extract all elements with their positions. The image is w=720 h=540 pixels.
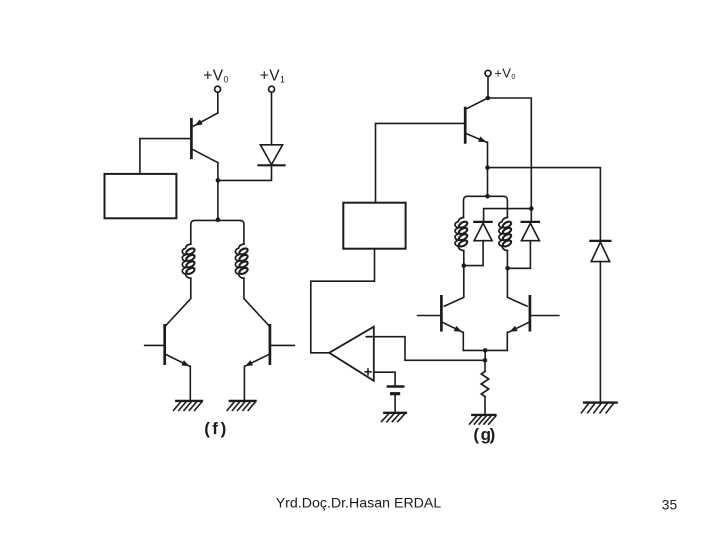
label +V1 [260, 67, 286, 84]
wire coil rail (circuit g) [464, 196, 508, 217]
wire node E to node F [487, 168, 489, 197]
node A (Q1 collector junction) [216, 178, 221, 183]
wire node C to node D (right branch) [488, 98, 532, 209]
svg-text:Yrd.Doç.Dr.Hasan ERDAL: Yrd.Doç.Dr.Hasan ERDAL [276, 496, 442, 512]
wire node A to node B [217, 180, 219, 219]
transistor Q1 [191, 113, 218, 163]
wire Q4 base to box [376, 123, 466, 202]
svg-text:+V1: +V1 [260, 67, 286, 84]
svg-text:+V0: +V0 [203, 67, 229, 84]
wire D2 anode to node G [464, 241, 483, 266]
wire D3 anode to node I [508, 241, 531, 269]
node E (emitter junction) [485, 165, 490, 170]
capacitor C1 [388, 387, 404, 394]
diode D2 [474, 222, 492, 241]
wire box to U1 output (feedback loop) [311, 249, 375, 353]
box (drive block, circuit f) [105, 174, 177, 218]
wire U1 non-inverting input [374, 372, 395, 385]
ground (D4 branch) [581, 403, 616, 413]
inductor L1 [182, 244, 195, 278]
wire node G to Q5 collector [444, 266, 464, 307]
wire L2 to Q3 collector [244, 278, 269, 325]
transistor Q4 [465, 98, 488, 142]
node G (Q5 collector node) [462, 263, 467, 268]
transistor Q3 [245, 325, 294, 366]
svg-text:(g): (g) [473, 425, 495, 444]
label (f) [204, 419, 226, 438]
wire node H to node J [484, 350, 486, 360]
transistor Q5 [418, 296, 463, 332]
node H (emitter bus center) [483, 348, 488, 353]
svg-text:35: 35 [662, 498, 678, 513]
wire node E to diode D4 [488, 168, 601, 240]
wire U1 inverting input to node J [374, 337, 485, 361]
node C (supply junction) [486, 96, 491, 101]
node D (clamp bus junction) [529, 206, 534, 211]
transistor Q6 [508, 296, 558, 332]
wire emitter bus [463, 349, 507, 351]
wire L1 to Q2 collector [166, 278, 191, 325]
terminal +V0 (circuit f) [215, 86, 221, 92]
node I (Q6 collector node) [505, 266, 510, 271]
wire +V0 terminal to Q1 emitter [217, 92, 219, 113]
wire node D to diode D2 cathode [484, 209, 532, 222]
wire Q5 emitter to bus [462, 332, 464, 350]
node B (center tap) [216, 218, 221, 223]
footer page number [662, 498, 678, 513]
resistor R1 [481, 360, 488, 413]
diode D1 [259, 145, 285, 166]
box (control block, circuit g) [343, 203, 405, 249]
wire D4 anode to ground [599, 262, 601, 402]
label +V0 (circuit g supply) [494, 65, 515, 81]
wire node D to diode D3 cathode [530, 209, 532, 222]
wire Q1 collector to node A [217, 163, 219, 181]
wire L3 to node G [463, 251, 465, 266]
wire D1 anode to +V1 terminal [271, 92, 273, 145]
svg-text:+V0: +V0 [494, 65, 515, 81]
footer author text [276, 496, 442, 512]
wire L4 to node I [506, 251, 508, 269]
wire C1 to ground [394, 395, 396, 411]
op-amp U1 [329, 327, 374, 381]
inductor L2 [235, 244, 248, 278]
wire Q3 emitter to ground [243, 366, 245, 400]
wire node A to diode D1 [218, 166, 272, 180]
ground (R1 tail) [470, 415, 497, 424]
wire +V0 terminal to node C [487, 76, 489, 98]
wire Q4 emitter to node E [487, 142, 489, 168]
node J (tail junction) [483, 358, 488, 363]
svg-text:(f): (f) [204, 419, 226, 438]
ground (Q3 emitter) [227, 401, 255, 411]
wire center-tap rail [191, 220, 244, 244]
wire Q6 emitter to bus [506, 332, 508, 350]
wire Q2 emitter to ground [189, 366, 191, 400]
wire Q1 base to box [140, 139, 192, 174]
ground (Q2 emitter) [174, 401, 202, 411]
terminal +V0 (circuit g) [485, 70, 491, 76]
label +V0 (circuit f supply) [203, 67, 229, 84]
wire node I to Q6 collector [507, 268, 527, 306]
inductor L3 [455, 217, 468, 250]
diode D4 [590, 241, 610, 262]
label (g) [473, 425, 495, 444]
inductor L4 [499, 217, 512, 250]
transistor Q2 [145, 325, 190, 366]
terminal +V1 [269, 86, 275, 92]
ground (C1) [382, 413, 406, 422]
node F (coil center tap) [485, 194, 490, 199]
diode D3 [521, 222, 539, 241]
